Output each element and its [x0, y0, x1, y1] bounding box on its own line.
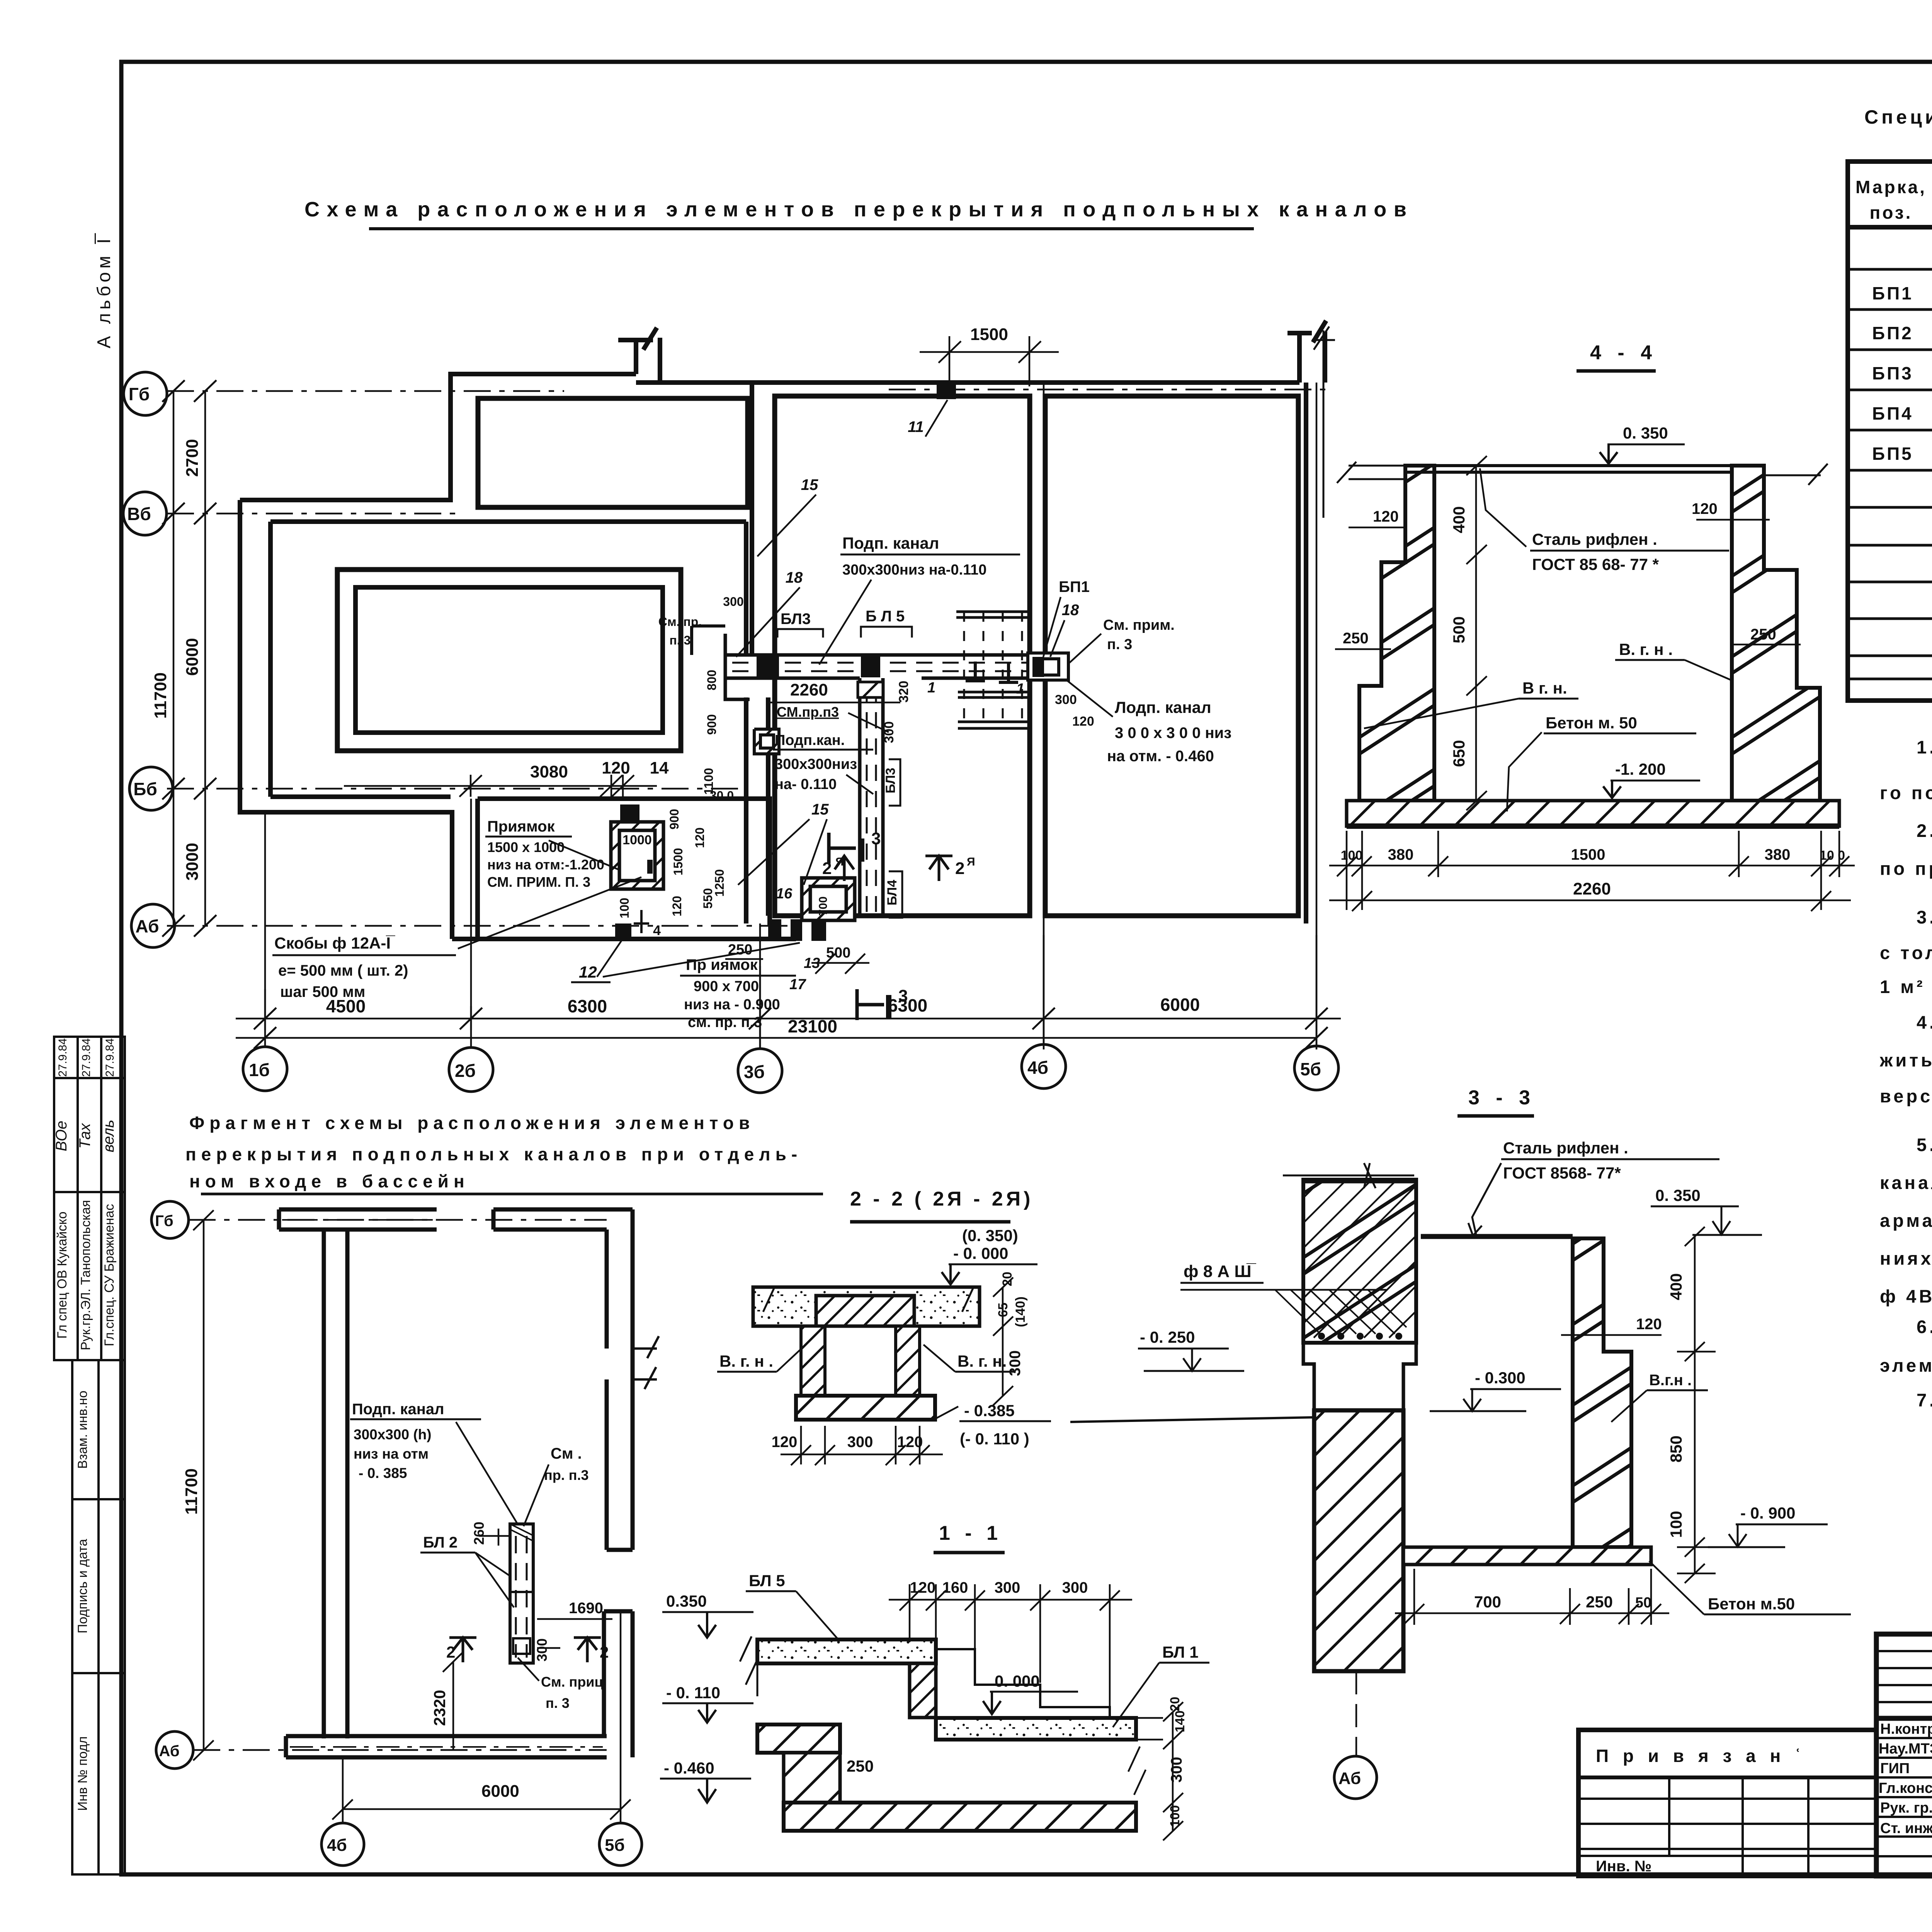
notes: [1879, 737, 1932, 1410]
See note p3 labels right: [1070, 617, 1175, 663]
dim 3080 120 14: [344, 775, 657, 797]
svg-text:3080: 3080: [530, 762, 568, 781]
bottom slab: [1403, 1547, 1651, 1565]
left wall hatched stepped: [1359, 466, 1434, 801]
right rotated dims: [1168, 1697, 1187, 1827]
top small rows (left part): [1876, 1650, 1932, 1652]
skoby label: [272, 934, 456, 1000]
svg-text:3 0 0 х 3 0 0 низ: 3 0 0 х 3 0 0 низ: [1115, 724, 1231, 742]
svg-text:Взам. инв.но: Взам. инв.но: [75, 1391, 90, 1469]
svg-text:БП2: БП2: [1872, 323, 1913, 343]
svg-text:- 0. 000: - 0. 000: [953, 1244, 1008, 1262]
svg-text:15: 15: [801, 476, 818, 493]
svg-text:перекрытия подпольных каналов: перекрытия подпольных каналов при отдель…: [185, 1144, 802, 1164]
svg-text:300: 300: [1007, 1350, 1024, 1376]
svg-text:900: 900: [667, 809, 681, 829]
svg-text:ф 4ВІ̅ : 1.0 кг.: ф 4ВІ̅ : 1.0 кг.: [1880, 1286, 1932, 1306]
svg-text:250: 250: [847, 1757, 874, 1775]
privyazan table: [1578, 1730, 1876, 1876]
podp kan middle label: [773, 732, 873, 794]
svg-text:ном входе в бассейн: ном входе в бассейн: [189, 1171, 469, 1191]
bottom dims: [1329, 831, 1855, 911]
svg-text:17: 17: [789, 976, 806, 993]
svg-text:Тах: Тах: [77, 1122, 94, 1149]
svg-text:В.г.н .: В.г.н .: [1649, 1372, 1692, 1389]
bottom wall: [286, 1736, 607, 1757]
svg-text:6000: 6000: [1160, 995, 1200, 1015]
svg-text:900: 900: [705, 714, 719, 735]
svg-text:300: 300: [534, 1638, 550, 1662]
svg-text:250: 250: [1343, 630, 1369, 647]
bottom slab: [796, 1396, 935, 1420]
svg-text:Бетон м. 50: Бетон м. 50: [1546, 714, 1637, 732]
svg-text:- 0. 250: - 0. 250: [1140, 1328, 1195, 1346]
svg-text:0. 350: 0. 350: [1655, 1186, 1701, 1204]
top dim 1500: [920, 336, 1059, 386]
axis verticals: [265, 383, 1316, 1049]
upper-left outer wall: [240, 374, 636, 500]
svg-text:300х300низ на-0.110: 300х300низ на-0.110: [842, 562, 986, 578]
section mark 3 (top): [829, 833, 862, 864]
svg-text:(140): (140): [1013, 1296, 1028, 1327]
svg-text:300: 300: [995, 1579, 1020, 1596]
filled block on channel left: [757, 656, 779, 678]
svg-text:16: 16: [776, 886, 793, 902]
Podp kanal label (upper): [819, 534, 1020, 665]
svg-text:850: 850: [1667, 1435, 1685, 1463]
svg-text:- 0.300: - 0.300: [1475, 1369, 1526, 1387]
rebar dots row: [1318, 1333, 1402, 1340]
right wall: [1573, 1238, 1631, 1547]
podp kanal right label: [1066, 680, 1231, 765]
svg-text:4б: 4б: [327, 1836, 347, 1855]
svg-text:250: 250: [1586, 1593, 1613, 1611]
svg-text:1: 1: [927, 680, 935, 696]
svg-text:п. 3: п. 3: [1107, 636, 1132, 653]
svg-text:2260: 2260: [790, 680, 828, 699]
svg-text:120: 120: [1692, 500, 1718, 517]
svg-text:15: 15: [811, 801, 829, 818]
svg-text:3. Приямки перекрывать рифл: 3. Приямки перекрывать рифленой сталью (…: [1917, 907, 1932, 927]
svg-text:ВОе: ВОе: [53, 1121, 70, 1151]
svg-text:Подп.кан.: Подп.кан.: [775, 732, 845, 748]
svg-text:11700: 11700: [151, 672, 170, 719]
dash-dot center of top/bottom walls: [282, 1220, 603, 1747]
svg-text:3б: 3б: [744, 1062, 765, 1082]
axes: [189, 1220, 621, 1823]
svg-text:30 0: 30 0: [710, 789, 734, 803]
top cover: [1421, 1234, 1573, 1239]
priyamok 1500x1000 label: [485, 818, 618, 890]
svg-text:ГИП: ГИП: [1880, 1760, 1910, 1777]
svg-text:См. пр.: См. пр.: [658, 615, 702, 629]
svg-text:арматура ф 4ВІ̅ с шагом 1: арматура ф 4ВІ̅ с шагом 150 мм в обоих н…: [1880, 1210, 1932, 1231]
svg-text:на отм. - 0.460: на отм. - 0.460: [1107, 748, 1214, 765]
svg-text:Приямок: Приямок: [487, 818, 555, 835]
small numeric labels near 3b bottom: [728, 886, 850, 993]
svg-text:П р и в я з а н ʿ: П р и в я з а н ʿ: [1596, 1746, 1805, 1766]
svg-text:- 0.460: - 0.460: [664, 1759, 714, 1777]
floor line to the left: [1070, 1417, 1314, 1422]
svg-text:2: 2: [446, 1643, 455, 1661]
svg-text:каналов выполнять из бетон: каналов выполнять из бетона м. 200 толщи…: [1880, 1172, 1932, 1193]
pool hall inner top: [270, 522, 746, 797]
section mark 3 bottom: [857, 989, 889, 1020]
svg-text:БЛ 5: БЛ 5: [749, 1571, 785, 1590]
break marks on slab: [763, 1287, 974, 1312]
left margin stamp strip: [54, 1037, 125, 1874]
svg-text:900 х 700: 900 х 700: [694, 978, 759, 995]
svg-text:2б: 2б: [455, 1061, 476, 1081]
top wall: [279, 1209, 437, 1230]
svg-text:3 - 3: 3 - 3: [1468, 1087, 1536, 1109]
stairs crossing at channel: [956, 612, 1030, 728]
svg-text:2: 2: [822, 859, 832, 878]
svg-text:2260: 2260: [1573, 879, 1611, 898]
svg-text:27.9.84: 27.9.84: [104, 1038, 116, 1077]
middle vertical walls near 3b: [746, 383, 752, 655]
svg-text:120: 120: [693, 827, 707, 848]
specification table: [1848, 162, 1932, 701]
vertical channel below: [858, 678, 883, 916]
svg-text:См. приц: См. приц: [541, 1674, 603, 1690]
svg-text:Подпись и дата: Подпись и дата: [75, 1539, 90, 1634]
svg-text:ниях . Расход бетона м. 2: ниях . Расход бетона м. 200: 0. 03м³; ар…: [1880, 1248, 1932, 1269]
svg-text:Н.контр: Н.контр: [1880, 1721, 1932, 1737]
svg-text:380: 380: [1388, 846, 1414, 863]
svg-text:низ на отм: низ на отм: [354, 1446, 429, 1462]
pit 900x700: [802, 878, 855, 920]
svg-text:- 0. 110: - 0. 110: [666, 1684, 720, 1702]
svg-text:(- 0. 110 ): (- 0. 110 ): [960, 1430, 1029, 1448]
left wall: [324, 1230, 347, 1738]
svg-text:БЛ3: БЛ3: [781, 611, 811, 628]
dims: [193, 1210, 631, 1820]
svg-text:800: 800: [705, 670, 719, 690]
labels: [350, 1401, 603, 1711]
svg-text:шаг 500 мм: шаг 500 мм: [280, 983, 365, 1000]
bottom dims: [236, 935, 1341, 1049]
horizontal underfloor channel: [725, 634, 1066, 699]
svg-text:0. 350: 0. 350: [1623, 424, 1668, 442]
svg-text:1250: 1250: [713, 869, 726, 896]
svg-text:Гл.констр: Гл.констр: [1879, 1780, 1932, 1796]
svg-text:6300: 6300: [568, 996, 607, 1016]
svg-text:Аб: Аб: [135, 916, 159, 936]
lower slab stippled: [936, 1718, 1136, 1740]
svg-text:СМ. ПРИМ. П. 3: СМ. ПРИМ. П. 3: [487, 874, 590, 890]
svg-text:Сталь рифлен .: Сталь рифлен .: [1503, 1139, 1628, 1157]
svg-text:Сталь рифлен .: Сталь рифлен .: [1532, 530, 1657, 548]
svg-text:см. пр. п.3: см. пр. п.3: [688, 1014, 762, 1031]
svg-text:3: 3: [871, 829, 881, 848]
svg-text:го полнотелого кирпича ( ГОС: го полнотелого кирпича ( ГОСТ 530-80) м.…: [1880, 782, 1932, 803]
svg-text:2. Дно подпольных каналов: 2. Дно подпольных каналов выполнять из б…: [1917, 820, 1932, 841]
svg-text:Гб: Гб: [129, 384, 150, 404]
pit 1500x1000: [611, 822, 663, 889]
svg-text:7. Экспликацию отверстий́: 7. Экспликацию отверстий́ см. лист АС-4.: [1917, 1389, 1932, 1410]
svg-text:Подп. канал: Подп. канал: [842, 534, 939, 552]
svg-text:БЛ4: БЛ4: [885, 880, 900, 905]
svg-text:700: 700: [817, 896, 830, 916]
svg-text:1: 1: [1016, 681, 1024, 697]
side walls: [801, 1326, 825, 1396]
svg-text:11700: 11700: [182, 1468, 201, 1515]
svg-text:Вб: Вб: [127, 504, 151, 524]
svg-text:400: 400: [1450, 506, 1468, 533]
svg-text:Инв. №: Инв. №: [1596, 1858, 1651, 1875]
signature rows: [1876, 1737, 1932, 1739]
svg-text:Подп. канал: Подп. канал: [352, 1401, 444, 1418]
section mark 2a right: [925, 856, 952, 881]
svg-text:низ на отм:-1.200: низ на отм:-1.200: [487, 857, 604, 872]
section marks 2: [449, 1638, 601, 1662]
svg-text:Спецификация к схеме располож: Спецификация к схеме расположения эл-тов…: [1864, 106, 1932, 128]
svg-text:380: 380: [1765, 846, 1791, 863]
svg-text:Б Л 5: Б Л 5: [866, 608, 905, 625]
small 4 arrow near pit: [634, 910, 649, 933]
title block (stamp): [1876, 1634, 1932, 1876]
titles: [185, 1113, 802, 1191]
svg-text:Я: Я: [967, 855, 975, 868]
svg-text:300х300 (h): 300х300 (h): [354, 1427, 432, 1442]
svg-text:160: 160: [942, 1579, 968, 1596]
svg-text:БП1: БП1: [1059, 578, 1090, 595]
svg-text:260: 260: [471, 1522, 487, 1545]
svg-text:320: 320: [896, 681, 911, 703]
svg-text:18: 18: [786, 569, 803, 586]
svg-text:БП4: БП4: [1872, 403, 1913, 423]
svg-text:(0. 350): (0. 350): [962, 1226, 1018, 1245]
svg-text:ф 8 А Ш̅: ф 8 А Ш̅: [1184, 1262, 1257, 1281]
svg-text:1. Стенки подпольных канало: 1. Стенки подпольных каналов выполнять и…: [1917, 737, 1932, 757]
svg-text:1500: 1500: [1571, 846, 1605, 863]
svg-text:с толщиной основания листа: с толщиной основания листа 3 мм ( теорет…: [1880, 942, 1932, 963]
bottom dims: [1395, 1569, 1669, 1625]
svg-text:650: 650: [1450, 740, 1468, 767]
steel cover top: [1405, 466, 1764, 472]
svg-text:6000: 6000: [183, 638, 202, 676]
right dim chain: [1677, 1227, 1716, 1583]
svg-text:СМ.пр.п3: СМ.пр.п3: [777, 704, 839, 720]
svg-text:23100: 23100: [788, 1016, 837, 1036]
svg-text:Аб: Аб: [1338, 1769, 1361, 1788]
svg-text:Аб: Аб: [159, 1743, 179, 1760]
data rows: [1848, 268, 1932, 271]
svg-text:5. Монолитные участки пере: 5. Монолитные участки перекрытия подполь…: [1917, 1134, 1932, 1155]
dims 120 160 300 300: [889, 1584, 1132, 1706]
svg-text:100: 100: [617, 898, 631, 918]
svg-text:4б: 4б: [1027, 1058, 1048, 1078]
svg-text:300: 300: [1168, 1757, 1185, 1783]
svg-text:2700: 2700: [183, 439, 202, 477]
rooms right of 3b: [775, 396, 1030, 916]
svg-text:120: 120: [1373, 508, 1399, 525]
BP1 block at right end of channel: [1028, 653, 1068, 680]
svg-text:10 0: 10 0: [1820, 848, 1845, 863]
svg-text:120: 120: [910, 1579, 936, 1596]
svg-text:Фрагмент схемы расположения э: Фрагмент схемы расположения элементов: [189, 1113, 755, 1133]
svg-text:См .: См .: [551, 1445, 582, 1462]
top slab: [753, 1287, 980, 1326]
svg-text:0.350: 0.350: [666, 1592, 707, 1610]
svg-text:элементов для варианта о: элементов для варианта отдельного входа …: [1880, 1355, 1932, 1376]
svg-text:2: 2: [600, 1643, 609, 1661]
svg-text:БП1: БП1: [1872, 283, 1913, 303]
step block: [910, 1663, 936, 1718]
svg-text:120: 120: [897, 1434, 923, 1451]
channel stub at left pool wall: [692, 626, 779, 754]
labels top area: [786, 400, 1090, 619]
svg-text:ГОСТ 85 68- 77 *: ГОСТ 85 68- 77 *: [1532, 555, 1659, 573]
svg-text:А льбом І̅: А льбом І̅: [94, 233, 114, 348]
BP3 BP5 brackets above channel: [777, 627, 912, 638]
axis line Г: [167, 389, 1325, 926]
svg-text:5б: 5б: [605, 1836, 625, 1855]
bottom room between Б and А: [478, 799, 770, 939]
svg-text:4 - 4: 4 - 4: [1590, 342, 1657, 364]
A circle below: [1355, 1671, 1357, 1756]
svg-text:2: 2: [955, 859, 964, 878]
svg-text:1 - 1: 1 - 1: [939, 1522, 1002, 1544]
svg-text:Скобы ф 12А-І̅: Скобы ф 12А-І̅: [274, 934, 395, 952]
plan walls: [240, 321, 1326, 939]
svg-text:Рук. гр.: Рук. гр.: [1880, 1800, 1932, 1816]
svg-text:Бб: Бб: [133, 779, 157, 799]
svg-text:18: 18: [1062, 602, 1079, 619]
top wall with stubs: [628, 338, 1299, 383]
svg-text:БП5: БП5: [1872, 444, 1913, 464]
pool double rect: [337, 570, 681, 751]
svg-text:Гл спец ОВ Кукайско: Гл спец ОВ Кукайско: [55, 1211, 70, 1338]
right rotated dims: [996, 1272, 1028, 1376]
walls: [279, 1209, 659, 1757]
svg-text:6. В спецификации в гра: 6. В спецификации в графе І̅І̅ дано коли…: [1917, 1316, 1932, 1337]
vertical dim chain: [1466, 456, 1487, 810]
svg-text:верстия.: верстия.: [1880, 1086, 1932, 1106]
svg-text:400: 400: [1667, 1273, 1685, 1300]
svg-text:300: 300: [1055, 692, 1077, 707]
top slab stippled: [757, 1639, 936, 1663]
plan right wall dim extension: [1323, 330, 1325, 518]
svg-text:120: 120: [772, 1434, 798, 1451]
svg-text:В. г. н.: В. г. н.: [957, 1352, 1007, 1370]
rotated small dims left of channel column: [617, 595, 744, 918]
svg-text:300: 300: [882, 721, 896, 743]
svg-text:12: 12: [579, 963, 597, 981]
small monolith blocks: [620, 804, 639, 822]
svg-text:500: 500: [1450, 616, 1468, 643]
svg-text:1690: 1690: [569, 1600, 603, 1617]
svg-text:4: 4: [653, 922, 661, 938]
svg-text:2320: 2320: [430, 1690, 449, 1726]
svg-text:БЛ 1: БЛ 1: [1162, 1643, 1199, 1661]
svg-text:100: 100: [1667, 1511, 1685, 1538]
svg-text:по предварительно уплотненно: по предварительно уплотненному грунту.: [1880, 858, 1932, 879]
svg-text:3: 3: [898, 986, 908, 1005]
svg-text:11: 11: [908, 418, 924, 435]
svg-text:поз.: поз.: [1870, 202, 1913, 223]
svg-text:120: 120: [670, 896, 684, 916]
svg-text:2 - 2 ( 2Я - 2Я): 2 - 2 ( 2Я - 2Я): [850, 1188, 1033, 1210]
svg-text:вель: вель: [100, 1120, 117, 1153]
svg-text:250: 250: [728, 942, 752, 958]
svg-text:жить арматуру 3ф8АШ̅ длиной: жить арматуру 3ф8АШ̅ длиной на 30 см бол…: [1879, 1050, 1932, 1070]
svg-text:В г. н.: В г. н.: [1522, 679, 1567, 697]
svg-text:120: 120: [1072, 714, 1094, 729]
svg-text:27.9.84: 27.9.84: [80, 1038, 93, 1077]
svg-text:50: 50: [1635, 1595, 1651, 1611]
svg-text:Рук.гр.ЭЛ. Танопольская: Рук.гр.ЭЛ. Танопольская: [78, 1200, 93, 1350]
bottom long slab: [784, 1803, 1136, 1831]
svg-text:на- 0.110: на- 0.110: [775, 776, 837, 793]
svg-text:БП3: БП3: [1872, 363, 1913, 383]
neck and lower wall: [1303, 1343, 1416, 1410]
extension line top left/right: [1337, 462, 1828, 485]
svg-text:1000: 1000: [622, 833, 652, 847]
bottom dims: [781, 1426, 943, 1465]
svg-text:п. 3: п. 3: [546, 1695, 570, 1711]
svg-text:е= 500 мм ( шт. 2): е= 500 мм ( шт. 2): [278, 962, 408, 979]
svg-text:- 0. 900: - 0. 900: [1740, 1504, 1795, 1522]
svg-text:1 м² листа - 25. 6 кг) .: 1 м² листа - 25. 6 кг) .: [1880, 976, 1932, 997]
right wall: [607, 1209, 633, 1550]
svg-text:120: 120: [1636, 1316, 1662, 1333]
svg-text:В. г. н .: В. г. н .: [1619, 640, 1673, 658]
svg-text:В. г. н .: В. г. н .: [719, 1352, 773, 1370]
left end cap with hatch: [725, 634, 750, 699]
svg-text:Лодп. канал: Лодп. канал: [1115, 698, 1211, 716]
axis circles: [151, 1201, 189, 1238]
kanal BP2: [510, 1524, 533, 1663]
svg-text:140: 140: [1173, 1711, 1187, 1733]
lower right wall: [604, 1611, 633, 1757]
room above pool: [478, 398, 748, 507]
svg-text:1б: 1б: [249, 1060, 270, 1080]
svg-text:Ст. инж.: Ст. инж.: [1880, 1820, 1932, 1837]
svg-text:БЛ3: БЛ3: [883, 768, 898, 793]
svg-text:Схема расположения элементов: Схема расположения элементов перекрытия …: [304, 198, 1413, 221]
svg-text:100: 100: [1341, 848, 1363, 863]
svg-text:1500: 1500: [671, 848, 685, 875]
svg-text:Марка,: Марка,: [1855, 177, 1927, 197]
svg-text:700: 700: [1474, 1593, 1501, 1611]
svg-text:6000: 6000: [481, 1782, 519, 1801]
svg-text:300: 300: [723, 595, 743, 609]
svg-text:4. Над отверстиями в сте: 4. Над отверстиями в стенах подземной ча…: [1917, 1012, 1932, 1032]
svg-text:300х300низ: 300х300низ: [775, 756, 857, 772]
svg-text:1500: 1500: [970, 325, 1008, 344]
svg-text:п. 3: п. 3: [670, 633, 691, 647]
svg-text:-1. 200: -1. 200: [1615, 760, 1666, 778]
svg-text:БЛ 2: БЛ 2: [423, 1534, 457, 1551]
upper pier crosshatched: [1303, 1180, 1416, 1343]
svg-text:Нау.МТЭП: Нау.МТЭП: [1879, 1741, 1932, 1757]
svg-text:низ на - 0.900: низ на - 0.900: [684, 997, 780, 1013]
left vertical dims 2700/11700/6000/3000: [162, 380, 216, 937]
svg-text:0. 000: 0. 000: [995, 1672, 1040, 1690]
bottom slab: [1347, 801, 1839, 826]
svg-text:5б: 5б: [1300, 1059, 1321, 1079]
svg-text:3000: 3000: [183, 843, 202, 881]
staircase thin outline above: [936, 1649, 1110, 1718]
svg-text:- 0.385: - 0.385: [964, 1401, 1015, 1420]
svg-text:Инв № подл: Инв № подл: [75, 1736, 90, 1811]
svg-text:250: 250: [1750, 626, 1776, 643]
svg-text:См. прим.: См. прим.: [1103, 617, 1175, 633]
svg-text:14: 14: [650, 759, 669, 777]
svg-text:300: 300: [1062, 1579, 1088, 1596]
